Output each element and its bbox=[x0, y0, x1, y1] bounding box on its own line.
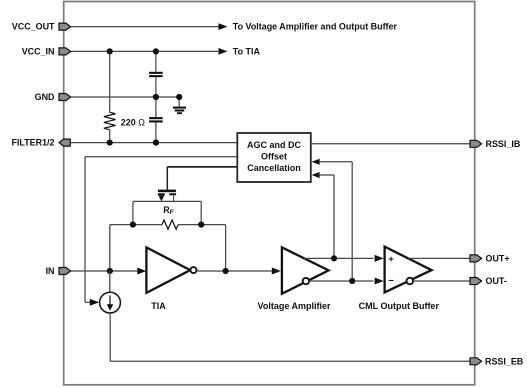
svg-text:−: − bbox=[388, 276, 394, 287]
svg-text:To Voltage Amplifier and Outpu: To Voltage Amplifier and Output Buffer bbox=[233, 22, 398, 32]
svg-text:VCC_OUT: VCC_OUT bbox=[12, 22, 55, 32]
svg-text:RSSI_IB: RSSI_IB bbox=[486, 139, 521, 149]
svg-text:To TIA: To TIA bbox=[233, 46, 261, 56]
svg-text:TIA: TIA bbox=[151, 301, 166, 311]
svg-text:RSSI_EB: RSSI_EB bbox=[485, 356, 524, 366]
svg-text:Offset: Offset bbox=[261, 152, 287, 162]
svg-text:FILTER1/2: FILTER1/2 bbox=[11, 138, 54, 148]
svg-text:OUT+: OUT+ bbox=[486, 253, 510, 263]
svg-text:220 Ω: 220 Ω bbox=[121, 117, 145, 127]
svg-text:Voltage Amplifier: Voltage Amplifier bbox=[257, 301, 331, 311]
svg-text:AGC and DC: AGC and DC bbox=[247, 140, 302, 150]
svg-text:GND: GND bbox=[35, 92, 55, 102]
svg-text:IN: IN bbox=[46, 266, 55, 276]
svg-text:+: + bbox=[388, 254, 394, 265]
svg-text:OUT-: OUT- bbox=[486, 276, 507, 286]
svg-text:Cancellation: Cancellation bbox=[247, 163, 301, 173]
svg-text:CML Output Buffer: CML Output Buffer bbox=[359, 301, 440, 311]
svg-text:VCC_IN: VCC_IN bbox=[22, 46, 55, 56]
